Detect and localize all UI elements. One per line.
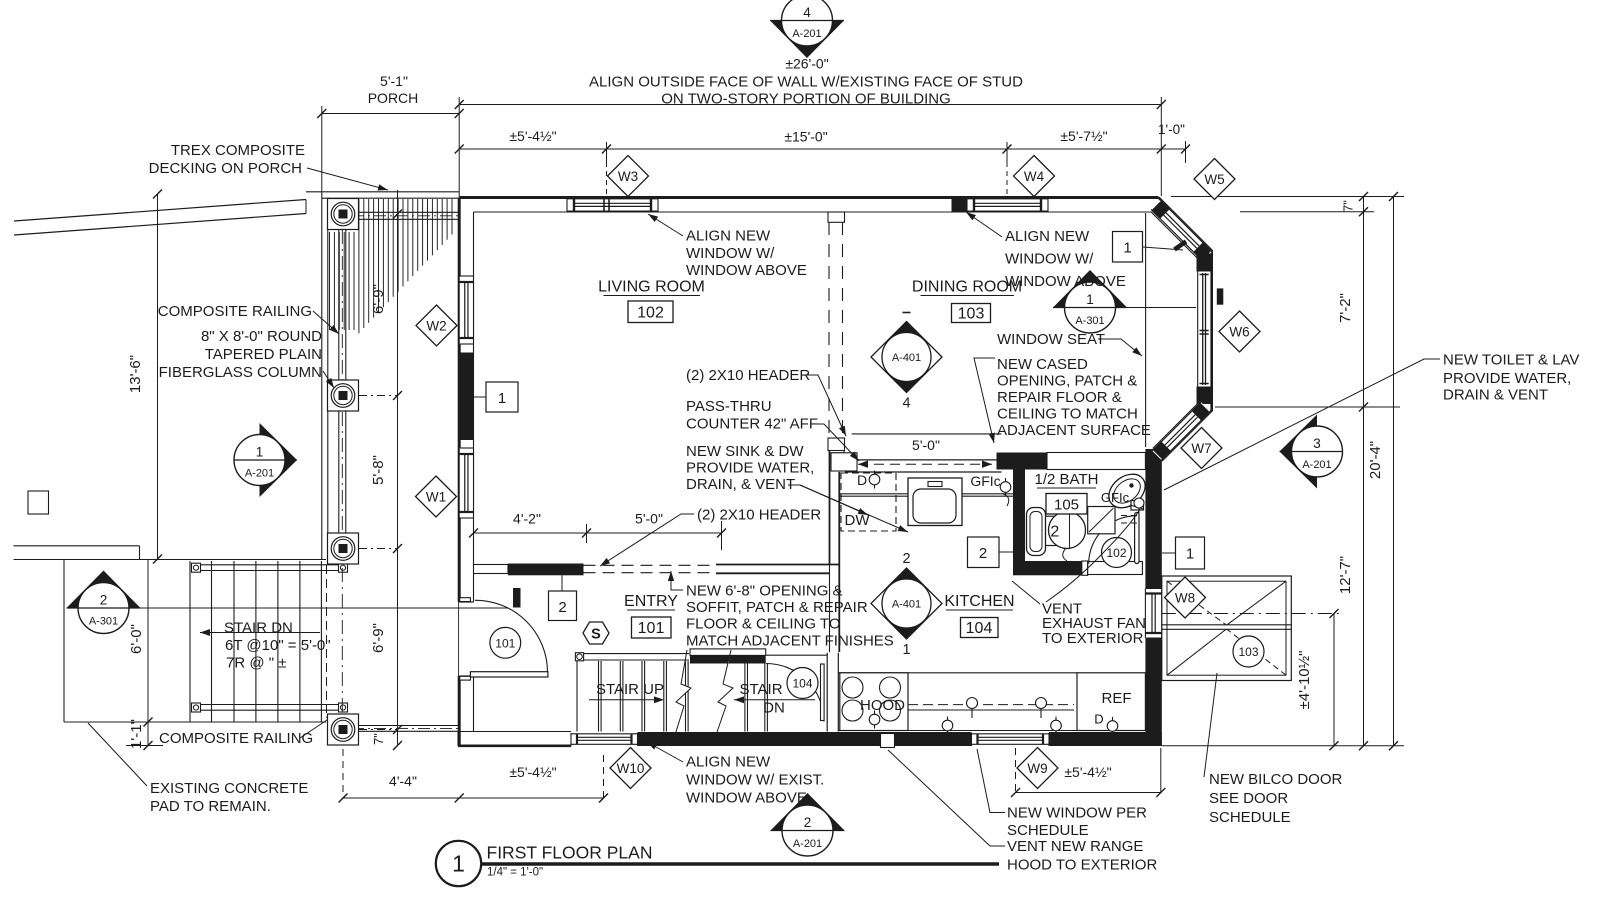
existing concrete pad note [88,723,308,815]
dimension label ±26'-0 [785,56,828,72]
gfic kitchen right [1051,717,1083,748]
svg-text:GFIc: GFIc [1101,490,1130,505]
bilco door outer [1162,576,1292,681]
kitchen west wall lower [827,565,838,732]
svg-text:13'-6": 13'-6" [127,355,144,393]
window W7 angled bay [1152,402,1211,461]
header note 2 [600,507,821,567]
window tag W8 [1165,577,1206,618]
svg-text:ALIGN NEW: ALIGN NEW [1005,228,1090,245]
porch railing col2-col3 [339,411,346,533]
svg-text:1/4" = 1'-0": 1/4" = 1'-0" [487,867,543,879]
ref label [1102,690,1132,707]
sidewalk edge line [14,546,140,560]
svg-text:A-201: A-201 [792,28,821,40]
bottom exterior wall new black west [638,732,972,746]
svg-text:STAIR UP: STAIR UP [596,681,664,698]
keynote box 1 east wall [1162,537,1205,569]
left exterior wall outer face [458,198,461,746]
fiberglass column note [159,328,334,388]
entry door opening jambs [459,602,473,676]
title underline [481,862,999,866]
svg-text:FIBERGLASS COLUMN: FIBERGLASS COLUMN [159,364,322,381]
dim label 12-7 [1337,556,1354,594]
svg-text:2: 2 [1050,524,1059,541]
window W3 in top wall [567,198,658,212]
east exterior wall black lower [1145,638,1161,746]
svg-text:PAD TO REMAIN.: PAD TO REMAIN. [150,798,271,815]
title text [487,843,653,879]
counter knobs [967,698,1047,719]
porch railing col1-col2 [339,230,346,381]
keynote box 1 bay [1113,232,1187,263]
window W4 in top wall [967,198,1048,212]
top exterior wall inner face [474,211,1152,213]
align new window bottom note [647,742,824,807]
entry opening header black [508,564,584,576]
living dining divider dashed [829,222,843,438]
stair hall top line east [766,654,828,656]
exterior stair top railing [192,563,348,572]
svg-text:WINDOW SEAT: WINDOW SEAT [997,331,1105,348]
trex decking note [149,142,388,190]
range [840,673,908,731]
dimension extension line porch left [321,106,323,192]
vent exhaust leader2 [1012,581,1040,604]
header note 1 [686,367,846,436]
bath dashed marks [1121,516,1139,524]
porch top railing to house [352,212,459,219]
east exterior wall black upper [1145,449,1161,589]
range vent through wall [881,734,895,748]
porch dim labels [370,284,387,745]
keynote box 2 kitchen [968,537,1014,568]
dimension line 13'-6 [153,190,162,564]
dimension extension line house west face [458,97,460,197]
dimension label 1'-1 [128,719,145,749]
bath door opening threshold [1088,562,1143,575]
svg-text:PROVIDE WATER,: PROVIDE WATER, [1443,370,1571,387]
entry wall existing segment [474,565,509,574]
svg-text:4'-2": 4'-2" [513,511,541,527]
stair break line 2 [716,650,733,735]
fridge [1077,673,1145,731]
bay inner wall line [1151,212,1198,449]
porch column 4 [328,714,359,745]
svg-text:1: 1 [1123,240,1131,257]
dim label bottom right [1064,764,1111,780]
svg-text:SOFFIT, PATCH & REPAIR: SOFFIT, PATCH & REPAIR [686,599,868,616]
dimension label ±5'-4 1/2 [509,128,556,144]
dim line 4-2 5-0 [469,521,726,550]
svg-text:8" X 8'-0" ROUND: 8" X 8'-0" ROUND [201,328,322,345]
door tag 102 [1102,538,1132,568]
bath lav side [1027,508,1046,556]
svg-text:DN: DN [763,700,785,717]
svg-text:WINDOW W/: WINDOW W/ [1005,251,1094,268]
bottom exterior wall new black east [1049,732,1162,746]
bath shelf square [1088,507,1115,534]
range outlet [869,711,880,729]
dw label [845,512,871,529]
entry door arc [475,600,548,671]
svg-text:NEW CASED: NEW CASED [997,356,1088,373]
svg-text:1: 1 [498,390,506,407]
dim line 7 7-2 12-7 [1359,192,1368,750]
window tag W4 [1014,156,1055,197]
svg-text:7R @ " ±: 7R @ " ± [226,655,286,672]
svg-text:COMPOSITE RAILING: COMPOSITE RAILING [158,303,312,320]
svg-text:6'-0": 6'-0" [128,624,145,654]
living room label [598,279,705,323]
svg-text:3: 3 [1313,436,1321,451]
svg-text:DRAIN & VENT: DRAIN & VENT [1443,387,1548,404]
toilet [1102,467,1151,514]
svg-text:A-201: A-201 [1302,459,1331,471]
svg-text:W7: W7 [1191,441,1211,456]
new cased opening note [974,356,1151,443]
svg-text:5'-0": 5'-0" [912,437,940,453]
dimension extension tick W4 center [1006,142,1008,196]
window tag W1 [416,476,457,517]
stair dn arrow [200,629,320,636]
bay outer wall line [1159,198,1212,461]
pass-thru counter band [845,460,1002,472]
chimney block east of bay [1217,288,1224,304]
bottom exterior wall west band [458,732,571,746]
svg-text:LIVING ROOM: LIVING ROOM [598,279,705,296]
kitchen door leaf [821,664,825,721]
new window schedule note [977,749,1147,839]
svg-text:EXISTING CONCRETE: EXISTING CONCRETE [150,780,308,797]
existing structure edge upper-left [14,200,306,236]
detail marker A-401 dining [871,313,942,412]
dimension extension line house east face [1160,97,1162,196]
bath south wall black [1013,561,1082,575]
stair dn arrow [734,696,815,703]
entry door opening face line [458,601,460,676]
svg-text:KITCHEN: KITCHEN [944,593,1014,610]
svg-text:TO EXTERIOR: TO EXTERIOR [1042,630,1144,647]
dimension extension tick W3 center [606,142,608,196]
window tag W7 [1181,428,1222,469]
dim label 4-10 [1296,651,1313,710]
svg-text:105: 105 [1054,497,1079,514]
window W3 mullion tick [604,199,609,211]
switch symbol S [583,622,609,644]
bath gfi note [1101,490,1144,513]
porch dimension line 5'-1 [317,109,463,118]
vent exhaust note [1042,509,1146,647]
bath door jamb white [1082,561,1088,575]
svg-text:D: D [1094,712,1103,727]
window W1 in left wall [459,448,473,518]
dim line 20-4 [1389,192,1398,750]
top exterior wall outer face [459,196,1158,199]
counter back line bottom [839,672,1078,674]
svg-text:S: S [591,627,601,643]
porch dim line interior [393,190,402,750]
stair up arrow [589,696,664,703]
dim label 20-4 [1367,441,1384,479]
bath north wall black [997,453,1048,470]
bilco door inner [1167,581,1286,675]
svg-text:W4: W4 [1024,169,1045,184]
svg-text:W6: W6 [1229,324,1249,339]
keynote box 1 left wall [474,382,519,412]
dining room label [912,279,1022,323]
extension line bottom right [1162,745,1404,747]
entry door jamb caps [460,598,471,680]
stair hall top rail post [575,653,583,661]
door tag 101 [490,627,521,658]
pass-thru jamb block [830,448,858,471]
svg-text:ON TWO-STORY PORTION OF BUILDI: ON TWO-STORY PORTION OF BUILDING [661,91,950,108]
svg-text:A-401: A-401 [892,599,921,611]
dim 4'-4 bottom [339,749,464,803]
svg-text:W5: W5 [1204,172,1224,187]
half bath label [1035,471,1099,514]
note align outside face [589,74,1023,108]
porch column 2 [328,380,359,411]
align new window dining note [966,212,1126,290]
svg-text:1: 1 [1086,292,1094,307]
svg-text:7'-2": 7'-2" [1337,293,1354,323]
svg-text:1/2 BATH: 1/2 BATH [1035,471,1099,488]
svg-text:PASS-THRU: PASS-THRU [686,398,772,415]
porch west edge [322,192,328,560]
window tag W9 [1017,748,1058,789]
soffit dashed opening [584,565,717,572]
window tag W6 [1219,311,1260,352]
extension line wall inner right [1240,211,1374,213]
svg-text:1'-1": 1'-1" [128,719,145,749]
gfic pass-thru [970,473,1010,506]
svg-text:2: 2 [100,593,108,608]
svg-text:CEILING TO MATCH: CEILING TO MATCH [997,406,1138,423]
jamb piece divider top [828,212,845,222]
svg-text:COUNTER 42" AFF: COUNTER 42" AFF [686,416,818,433]
porch deck edge dashed col3-col4 [326,565,328,713]
svg-text:2: 2 [558,599,566,616]
svg-text:2: 2 [804,815,812,830]
svg-text:SEE DOOR: SEE DOOR [1209,790,1288,807]
svg-text:MATCH ADJACENT FINISHES: MATCH ADJACENT FINISHES [686,633,894,650]
dishwasher dashed [841,473,896,531]
svg-text:104: 104 [792,677,812,691]
bath door leaf [1135,513,1139,564]
window W10 in bottom wall [571,733,638,746]
door tag 104 [787,668,818,699]
svg-text:102: 102 [1106,546,1126,560]
svg-text:A-201: A-201 [245,468,274,480]
svg-text:NEW BILCO DOOR: NEW BILCO DOOR [1209,771,1343,788]
porch column 3 [328,533,359,564]
svg-text:FIRST FLOOR PLAN: FIRST FLOOR PLAN [487,843,653,863]
ref outlet [1094,712,1117,736]
extension line bay bottom [1215,406,1400,408]
svg-text:NEW TOILET & LAV: NEW TOILET & LAV [1443,352,1579,369]
svg-text:WINDOW W/: WINDOW W/ [686,245,775,262]
svg-text:NEW SINK & DW: NEW SINK & DW [686,443,804,460]
svg-text:6'-9": 6'-9" [370,623,387,653]
svg-text:103: 103 [958,306,985,323]
svg-text:2: 2 [902,551,910,567]
svg-text:W8: W8 [1175,590,1195,605]
extension line top right [1171,196,1404,198]
stair guard black band [690,655,766,663]
svg-text:±5'-7½": ±5'-7½" [1060,128,1107,144]
dimension label 1'-0 [1158,122,1185,137]
section marker 1 A-301 dining [1053,270,1127,333]
svg-text:WINDOW ABOVE: WINDOW ABOVE [686,262,807,279]
svg-text:±4'-10½": ±4'-10½" [1296,651,1313,710]
svg-text:±15'-0": ±15'-0" [784,129,827,145]
new post black top wall [952,197,968,212]
bath door arc [1089,516,1137,564]
window seat note [997,331,1142,356]
bath west wall black [1013,453,1025,576]
bath lav bowl [1049,512,1086,562]
svg-text:(2) 2X10 HEADER: (2) 2X10 HEADER [686,367,810,384]
window W6 in bay east wall [1200,273,1209,385]
column centerline stubs [359,396,398,730]
svg-text:102: 102 [637,305,664,322]
svg-text:NEW 6'-8" OPENING &: NEW 6'-8" OPENING & [686,583,843,600]
left exterior wall inner face [473,212,475,732]
exterior stair treads [64,561,326,722]
entry door leaf [470,672,548,677]
svg-text:7": 7" [1341,200,1356,212]
kitchen west wall upper [830,448,840,652]
bilco door note [1204,673,1343,826]
title circle [436,841,481,886]
porch centerline rail [341,230,343,713]
dimension label 6'-0 [128,624,145,654]
pass-thru counter back line [852,433,1002,435]
dim line bottom center 5-4 [459,755,608,803]
stair dn label [739,681,784,717]
align new window living note [648,214,807,279]
new sink dw note [686,443,908,532]
pass-thru opening dim 5'-0 [858,437,992,468]
svg-text:W3: W3 [618,169,638,184]
svg-text:FLOOR & CEILING TO: FLOOR & CEILING TO [686,616,840,633]
overall dimension line ±26'-0 [455,100,1166,109]
svg-text:GFIc: GFIc [926,732,956,748]
entry wall thick band east [716,565,839,574]
section marker 2 A-301 [67,571,141,634]
svg-text:4: 4 [803,5,811,20]
d outlet pass-thru [857,471,880,489]
dim line bottom right 5-4 [1011,748,1165,797]
vent range hood note [888,750,1157,874]
svg-text:1: 1 [452,851,465,877]
window seat front line [1145,213,1147,447]
svg-text:TREX COMPOSITE: TREX COMPOSITE [171,142,305,159]
dim label 7-2 [1337,293,1354,323]
svg-text:STAIR DN: STAIR DN [224,620,293,637]
svg-text:PROVIDE WATER,: PROVIDE WATER, [686,460,814,477]
svg-text:5'-0": 5'-0" [635,511,663,527]
window W8 in east wall [1145,589,1161,639]
svg-text:SCHEDULE: SCHEDULE [1209,809,1291,826]
section marker 4 A-201 top [770,0,844,58]
svg-text:A-401: A-401 [892,352,921,364]
svg-text:HOOD TO EXTERIOR: HOOD TO EXTERIOR [1007,857,1157,874]
window W2 in left wall [459,276,473,344]
composite railing note lower [159,714,336,747]
hood label [860,697,905,714]
porch column 1 [328,199,359,230]
wall stub black entry [513,588,521,608]
dimension line 6'-0 and 1'-1 [126,560,163,751]
svg-text:1: 1 [902,642,910,658]
svg-text:NEW WINDOW PER: NEW WINDOW PER [1007,805,1147,822]
svg-text:SCHEDULE: SCHEDULE [1007,822,1089,839]
svg-text:WINDOW ABOVE: WINDOW ABOVE [1005,273,1126,290]
dimension label 5'-1 PORCH [368,73,419,106]
bath north wall existing [1047,453,1145,470]
sink [908,478,962,526]
window W9 in bottom wall [972,733,1050,746]
svg-text:101: 101 [495,636,515,650]
new opening note [671,571,894,650]
svg-text:W2: W2 [426,318,446,333]
svg-text:7": 7" [371,733,386,745]
svg-text:6T @10" = 5'-0": 6T @10" = 5'-0" [225,637,331,654]
section marker 3 A-201 [1280,415,1343,489]
svg-text:104: 104 [966,620,993,637]
concrete pad outline [64,560,190,723]
small square site feature [28,491,49,514]
stair up label [596,681,664,698]
svg-text:±5'-4½": ±5'-4½" [1064,764,1111,780]
svg-text:ALIGN OUTSIDE FACE OF WALL W/E: ALIGN OUTSIDE FACE OF WALL W/EXISTING FA… [589,74,1023,91]
dimension label 13'-6 [127,355,144,393]
svg-text:A-201: A-201 [793,838,822,850]
svg-text:103: 103 [1238,645,1258,659]
svg-text:DRAIN, & VENT: DRAIN, & VENT [686,476,795,493]
section marker 1 A-201 porch [234,423,297,497]
bay black post below W5 [1197,254,1212,272]
exterior stair bottom railing [192,703,348,712]
svg-text:1'-0": 1'-0" [1158,122,1185,137]
entry label [624,593,678,638]
dim label bottom center [509,764,556,780]
svg-text:DECKING ON PORCH: DECKING ON PORCH [149,160,302,177]
left wall new infill black [459,353,473,441]
svg-text:6'-9": 6'-9" [370,284,387,314]
pass-thru note [686,398,859,461]
bilco centerline [1162,613,1341,615]
svg-text:±5'-4½": ±5'-4½" [509,764,556,780]
svg-text:WINDOW ABOVE: WINDOW ABOVE [686,790,807,807]
dimension label ±5'-7 1/2 [1060,128,1107,144]
marker line to bay [1114,307,1196,309]
svg-text:1: 1 [1186,546,1194,563]
kitchen door arc [766,664,824,722]
bath keynote 2 plain [1050,524,1059,541]
svg-text:W10: W10 [617,761,645,776]
grade line to porch [14,559,327,561]
svg-text:D: D [857,472,867,488]
upper dimension string line [455,145,1190,154]
dimension extension line 1'-0 right [1185,141,1187,163]
door tag 103 [1233,636,1264,667]
bath lav counter [1040,516,1071,545]
svg-text:12'-7": 12'-7" [1337,556,1354,594]
